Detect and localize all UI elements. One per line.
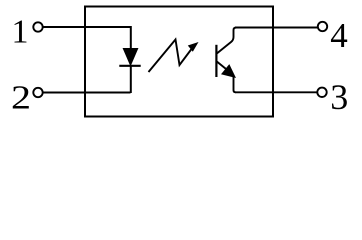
light emission arrow: [149, 40, 199, 73]
LED D1 cathode lead: [130, 66, 132, 93]
pin 3 terminal: [317, 88, 326, 97]
phototransistor Q1 emitter lead with arrowhead: [217, 62, 236, 93]
LED D1 anode triangle: [123, 49, 137, 66]
optocoupler package outline U1: [85, 7, 273, 117]
LED D1 cathode bar: [119, 65, 140, 67]
wire pin 1 to LED anode: [43, 26, 131, 28]
pin 1 terminal: [33, 22, 42, 31]
wire emitter to pin 3: [235, 91, 317, 93]
phototransistor Q1 base bar: [215, 45, 217, 77]
wire LED cathode to pin 2: [43, 92, 131, 94]
pin 2 terminal: [33, 88, 42, 97]
LED D1 anode lead: [130, 26, 132, 50]
pin 4 terminal: [318, 22, 327, 31]
phototransistor Q1 collector lead: [217, 28, 237, 54]
wire collector to pin 4: [235, 27, 318, 29]
svg-text:1: 1: [12, 14, 29, 51]
svg-text:3: 3: [330, 77, 348, 117]
svg-text:4: 4: [330, 16, 348, 55]
svg-text:2: 2: [11, 80, 31, 117]
